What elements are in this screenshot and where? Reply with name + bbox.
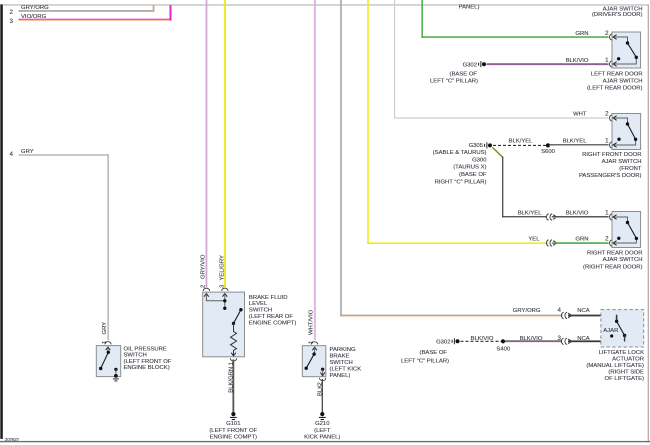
svg-text:ACTUATOR: ACTUATOR (612, 356, 644, 362)
wire GRN vertical (421, 0, 423, 38)
left rear door switch open contact (617, 57, 620, 60)
svg-text:OIL PRESSURE: OIL PRESSURE (124, 346, 167, 352)
svg-text:WHT: WHT (573, 112, 587, 118)
svg-text:BLK/YEL: BLK/YEL (509, 139, 534, 145)
svg-text:SWITCH: SWITCH (249, 308, 272, 314)
svg-text:1: 1 (605, 57, 609, 64)
svg-text:RIGHT FRONT DOOR: RIGHT FRONT DOOR (582, 152, 641, 158)
svg-text:PASSENGER'S DOOR): PASSENGER'S DOOR) (579, 173, 642, 179)
left rear door ajar switch U-LRD box (612, 32, 641, 68)
in-line connector arcs (BLK/VIO to NCA pin 3) (561, 338, 563, 345)
in-line connector arcs (GRY/ORG to NCA pin 4) (561, 312, 563, 319)
right front door switch pin 2 connector arc (610, 115, 612, 121)
svg-text:GRN: GRN (575, 31, 588, 37)
svg-text:AJAR SWITCH: AJAR SWITCH (603, 257, 643, 263)
ground G302 (liftgate) symbol (452, 338, 454, 344)
svg-text:NCA: NCA (577, 336, 590, 342)
svg-text:BLK/VIO: BLK/VIO (566, 210, 589, 216)
wire WHT/VIO vertical (to parking brake switch pin 1) (314, 0, 316, 340)
brake fluid switch pin 1 connector arc (230, 358, 236, 361)
svg-text:2: 2 (605, 235, 609, 242)
right rear door switch pin 1 connector arc (610, 214, 612, 220)
right rear door switch open contact (617, 237, 620, 240)
parking brake switch pin 2 connector arc (319, 378, 325, 381)
wire BLK/YEL horizontal (to connector toward right rear door) (502, 216, 546, 218)
wire BLK/YEL branch diagonal from G305 (492, 147, 503, 157)
svg-text:BLK/VIO: BLK/VIO (566, 58, 589, 64)
svg-text:3: 3 (10, 18, 14, 25)
svg-text:LEFT “C” PILLAR): LEFT “C” PILLAR) (401, 358, 449, 364)
brake fluid switch pin 2 arrow (204, 294, 209, 297)
oil pressure switch case ground symbol (114, 374, 118, 378)
svg-text:2: 2 (200, 285, 206, 288)
svg-text:AJAR SWITCH: AJAR SWITCH (602, 159, 642, 165)
brake fluid switch resistor (231, 323, 237, 356)
wire YEL/GRY vertical (to brake fluid level switch pin 3) (224, 0, 226, 288)
svg-text:S600: S600 (541, 149, 555, 155)
svg-text:G210: G210 (315, 421, 330, 427)
svg-text:ENGINE COMPT): ENGINE COMPT) (210, 435, 257, 441)
svg-text:1: 1 (605, 138, 609, 145)
connector arrow (553, 215, 556, 220)
svg-text:3: 3 (558, 335, 562, 342)
in-line connector arcs (YEL to GRN) (546, 240, 548, 247)
right rear door switch arm (628, 223, 637, 239)
parking brake switch arm (306, 354, 314, 368)
svg-text:(LEFT KICK: (LEFT KICK (330, 367, 362, 373)
liftgate lock actuator dashed box (601, 310, 644, 347)
liftgate actuator AJAR contact (610, 334, 613, 337)
brake fluid switch arm (234, 310, 241, 324)
wire BLK/YEL solid (S600 to right front door pin 1) (550, 144, 609, 146)
svg-text:2: 2 (605, 30, 609, 37)
right front door switch interior wiring (612, 118, 635, 145)
wire 2 GRY/ORG horizontal (19, 10, 155, 12)
oil pressure switch box (96, 346, 120, 377)
svg-text:BRAKE FLUID: BRAKE FLUID (249, 295, 288, 301)
svg-text:NCA: NCA (577, 308, 590, 314)
svg-text:(BASE OF: (BASE OF (450, 71, 478, 77)
right rear door ajar switch box (612, 212, 641, 248)
brake fluid level switch box (203, 292, 245, 357)
svg-text:S400: S400 (496, 347, 510, 353)
left rear door switch pin arrows (613, 35, 616, 40)
wire GRN (connector to right rear door pin 2) (552, 242, 609, 244)
liftgate actuator arm stub to pin 3 line (624, 336, 625, 342)
left border bar (0, 4, 3, 439)
wire NCA pin 3 (568, 340, 626, 342)
svg-text:G300: G300 (472, 157, 487, 163)
bottom border line (0, 441, 650, 442)
svg-text:BLK/GRN: BLK/GRN (229, 367, 235, 393)
wire GRY/ORG vertical (to liftgate lock actuator) (340, 0, 342, 316)
wire 4 GRY vertical (108, 154, 109, 340)
svg-text:(FRONT: (FRONT (619, 166, 642, 172)
svg-text:AJAR SWITCH: AJAR SWITCH (603, 78, 643, 84)
parking brake switch pin 1 connector arc (311, 342, 317, 345)
right rear door switch pin 2 connector arc (610, 240, 612, 246)
svg-text:2: 2 (605, 111, 609, 118)
splice S600 (546, 143, 550, 147)
svg-text:BLK: BLK (317, 385, 323, 396)
wire WHT vertical (394, 0, 395, 118)
svg-text:BRAKE: BRAKE (330, 354, 350, 360)
svg-text:ENGINE BLOCK): ENGINE BLOCK) (124, 365, 170, 371)
wire YEL horizontal (to splice toward right rear door) (367, 242, 548, 244)
svg-text:1: 1 (605, 209, 609, 216)
wire GRY/ORG horizontal (to liftgate lock actuator pin 4) (340, 315, 562, 317)
svg-text:BLK/YEL: BLK/YEL (563, 139, 588, 145)
svg-text:GRN: GRN (575, 236, 588, 242)
oil pressure switch case contact (114, 368, 117, 371)
right front door ajar switch box (612, 114, 641, 150)
wire BLK/VIO dashed (G302 to S400) (461, 340, 502, 342)
ground G302 (left C pillar) symbol (479, 61, 481, 67)
svg-text:WHT/VIO: WHT/VIO (309, 309, 315, 335)
svg-text:G302: G302 (463, 63, 477, 69)
wire BLK/YEL vertical branch (502, 157, 504, 218)
brake fluid switch interior wiring (206, 293, 224, 308)
right front door switch pin 1 connector arc (610, 142, 612, 148)
wire WHT horizontal (to right front door ajar switch pin 2) (394, 117, 609, 118)
right front door switch open contact (617, 138, 620, 141)
connector arrow (553, 241, 556, 246)
svg-text:(DRIVER'S DOOR): (DRIVER'S DOOR) (592, 12, 643, 18)
ground G101 symbol (231, 412, 235, 416)
svg-text:GRY: GRY (102, 322, 108, 335)
right border line (648, 4, 649, 441)
wire BLK/VIO solid (S400 to liftgate pin 3) (505, 340, 562, 342)
svg-text:ENGINE COMPT): ENGINE COMPT) (249, 320, 296, 326)
svg-text:G101: G101 (226, 421, 240, 427)
ground G210 symbol (320, 412, 324, 416)
connector arrow pin 4 (568, 313, 571, 318)
liftgate actuator switch arm (617, 321, 625, 335)
wire NCA pin 4 (568, 315, 617, 317)
svg-text:(RIGHT SIDE: (RIGHT SIDE (608, 369, 644, 375)
oil pressure switch arm (101, 352, 109, 368)
wire 3 VIO/ORG vertical riser (170, 5, 172, 21)
svg-text:GRY: GRY (21, 149, 34, 155)
wire 2 GRY/ORG vertical riser (153, 5, 155, 12)
svg-text:(LEFT FRONT OF: (LEFT FRONT OF (124, 359, 172, 365)
wire BLK/YEL dashed segment (G305 to S600) (493, 144, 546, 146)
brake fluid switch pin 2 connector arc (203, 288, 209, 291)
svg-text:LEFT “C” PILLAR): LEFT “C” PILLAR) (430, 79, 478, 85)
svg-text:PANEL): PANEL) (330, 373, 351, 379)
svg-text:BLK/VIO: BLK/VIO (520, 336, 543, 342)
wire 4 GRY horizontal (19, 154, 109, 155)
svg-text:GRY/ORG: GRY/ORG (513, 308, 541, 314)
oil pressure switch pin arrow (106, 347, 111, 350)
right front door switch arm (628, 124, 636, 139)
svg-text:YEL: YEL (528, 236, 540, 242)
wire BLK/VIO (G302 to left rear door pin 1) (487, 63, 609, 65)
svg-text:(LEFT FRONT OF: (LEFT FRONT OF (209, 428, 257, 434)
svg-text:4: 4 (558, 307, 562, 314)
svg-text:RIGHT REAR DOOR: RIGHT REAR DOOR (587, 251, 643, 257)
brake fluid switch fixed contact (223, 307, 226, 310)
wire BLK/VIO (connector to right rear door pin 1) (552, 216, 609, 218)
svg-text:(LEFT: (LEFT (314, 428, 331, 434)
svg-text:LEVEL: LEVEL (249, 301, 268, 307)
svg-text:(SABLE & TAURUS): (SABLE & TAURUS) (433, 150, 487, 156)
brake fluid switch junction dot (223, 299, 226, 302)
wire 3 VIO/ORG horizontal (19, 19, 172, 21)
svg-text:(TAURUS X): (TAURUS X) (453, 165, 486, 171)
svg-text:G302: G302 (436, 340, 450, 346)
svg-text:PARKING: PARKING (330, 347, 356, 353)
splice S400 (501, 339, 505, 343)
wire GRY/VIO vertical (to brake fluid level switch pin 2) (205, 0, 207, 288)
oil pressure switch contact stub to case ground (115, 369, 116, 375)
right rear door switch pin arrows (613, 215, 616, 220)
svg-text:BLK/VIO: BLK/VIO (471, 336, 494, 342)
svg-text:(BASE OF: (BASE OF (459, 172, 487, 178)
svg-text:(RIGHT REAR DOOR): (RIGHT REAR DOOR) (583, 264, 642, 270)
brake fluid switch pin 1 exit arrow (231, 353, 236, 356)
svg-text:SWITCH: SWITCH (124, 353, 147, 359)
svg-text:2: 2 (10, 9, 14, 16)
parking brake switch pin 2 exit arrow (320, 373, 325, 376)
svg-text:SWITCH: SWITCH (330, 360, 353, 366)
left rear door switch pin 1 connector arc (610, 61, 612, 67)
svg-text:YEL/GRY: YEL/GRY (219, 255, 225, 281)
brake fluid switch pin 3 arrow (223, 294, 228, 297)
svg-text:RIGHT “C” PILLAR): RIGHT “C” PILLAR) (435, 179, 487, 185)
parking brake switch box (302, 346, 326, 377)
svg-text:LIFTGATE LOCK: LIFTGATE LOCK (599, 350, 644, 356)
ground G305/G300 symbol (485, 142, 487, 148)
parking brake switch fixed contact (321, 368, 324, 371)
svg-text:LEFT REAR DOOR: LEFT REAR DOOR (591, 71, 643, 77)
svg-text:(BASE OF: (BASE OF (420, 350, 448, 356)
wire BLK vertical (parking brake switch to G210) (322, 379, 323, 412)
top border line (3, 4, 649, 5)
svg-text:(LEFT REAR DOOR): (LEFT REAR DOOR) (587, 86, 643, 92)
left rear door switch pin 2 connector arc (610, 34, 612, 40)
svg-text:PANEL): PANEL) (459, 5, 480, 11)
svg-text:207627: 207627 (5, 437, 20, 442)
liftgate actuator NCA stub down to arm (616, 315, 618, 321)
left rear door switch interior wiring (612, 37, 636, 64)
svg-text:GRY/VIO: GRY/VIO (200, 254, 206, 279)
parking brake switch pin arrow (312, 347, 317, 350)
right rear door switch interior wiring (612, 217, 636, 243)
parking brake switch pin stub (314, 346, 315, 353)
right front door switch pin arrows (613, 116, 616, 121)
svg-text:BLK/YEL: BLK/YEL (518, 210, 543, 216)
in-line connector arcs (BLK/YEL to BLK/VIO) (546, 214, 548, 221)
wire GRN horizontal (to left rear door ajar switch pin 2) (421, 36, 608, 38)
wire YEL vertical (367, 0, 369, 244)
wire BLK/GRN vertical (brake fluid switch to G101) (233, 359, 235, 412)
svg-text:AJAR: AJAR (603, 328, 618, 334)
brake fluid switch pin 3 connector arc (222, 288, 228, 291)
oil pressure switch pin 1 connector arc (105, 342, 111, 345)
connector arrow pin 3 (568, 339, 571, 344)
svg-text:4: 4 (10, 151, 14, 158)
left rear door switch arm (628, 43, 637, 57)
svg-text:KICK PANEL): KICK PANEL) (304, 435, 340, 441)
svg-text:G305: G305 (469, 143, 484, 149)
parking brake switch contact stub to pin 2 (322, 369, 323, 376)
svg-text:OF LIFTGATE): OF LIFTGATE) (605, 376, 645, 382)
svg-text:(LEFT REAR OF: (LEFT REAR OF (249, 314, 293, 320)
svg-text:(MANUAL LIFTGATE): (MANUAL LIFTGATE) (586, 363, 644, 369)
oil pressure switch pin stub (108, 346, 109, 352)
